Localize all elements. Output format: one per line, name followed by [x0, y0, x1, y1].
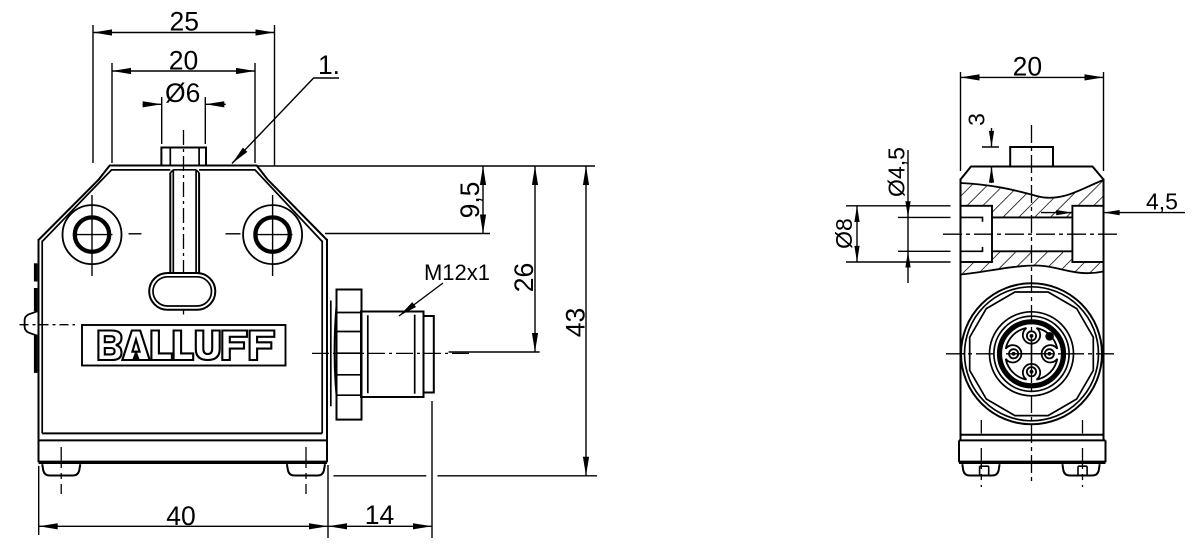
oval slot inner: [153, 277, 212, 306]
counterbore left (Ø8): [961, 206, 993, 262]
hex nut facet lines: [334, 304, 361, 396]
svg-text:Ø4,5: Ø4,5: [884, 147, 910, 197]
letter F: [250, 331, 275, 361]
lower break wavy line: [961, 266, 1104, 275]
dim 14 extension line: [431, 401, 433, 538]
screw left outer circle: [63, 205, 122, 264]
dim 25 line: [93, 32, 275, 34]
Ø8 extension lines: [846, 205, 951, 207]
FRONT VIEW: [20, 130, 471, 494]
body top edge (side): [961, 167, 1104, 180]
svg-text:20: 20: [169, 46, 198, 76]
knurl dodecagon: [970, 292, 1094, 416]
foot centerline right (side): [1082, 420, 1084, 487]
pin 4 (left): [1009, 349, 1018, 358]
dim 3 arrow segments: [991, 128, 993, 147]
foot left (front): [42, 464, 80, 475]
svg-text:25: 25: [170, 7, 199, 37]
foot right notch: [1078, 466, 1087, 474]
oval slot outer: [149, 273, 215, 310]
dim 40 extension lines: [38, 466, 40, 535]
svg-text:20: 20: [1013, 52, 1042, 82]
base plate bottom edge (side): [959, 461, 1106, 464]
M12 connector washer line: [330, 301, 332, 407]
letter L: [151, 331, 172, 361]
dim Ø8 line: [856, 206, 858, 262]
letter F: [222, 331, 247, 361]
dim 26 line: [534, 166, 536, 352]
thread chamfer line: [367, 315, 369, 393]
dim 9,5 line: [482, 166, 484, 234]
26 reference line: [449, 351, 540, 353]
counterbore right (Ø8): [1072, 206, 1103, 262]
screw right bold ring: [255, 217, 289, 251]
letter A: [122, 331, 149, 361]
dim 3 extension line: [982, 146, 999, 148]
hatch lower band (section): [961, 251, 1104, 274]
screw right cross: [272, 195, 274, 276]
body bottom groove line (side): [961, 434, 1104, 436]
M12 outer ring circle: [961, 283, 1102, 424]
letter B: [98, 331, 121, 361]
hole centerline: [943, 233, 1120, 235]
dim 26 arrows: [532, 166, 538, 185]
dim 43 line: [585, 166, 587, 476]
through hole Ø4.5 bottom edge: [992, 250, 1072, 252]
plunger stem: [170, 170, 199, 273]
screw right outer circle: [243, 205, 302, 264]
cover plate inner border: [42, 170, 322, 434]
base plate top line: [39, 439, 328, 441]
svg-text:Ø6: Ø6: [165, 78, 200, 108]
foot right (front): [287, 464, 325, 475]
dim 14 arrows: [328, 523, 347, 529]
top reference line: [257, 165, 595, 167]
dim Ø4,5 line: [907, 150, 909, 283]
M12x1 leader line: [399, 283, 443, 316]
front vertical centerline: [183, 130, 185, 273]
foot centerline left (side): [980, 420, 982, 487]
svg-text:26: 26: [509, 263, 539, 292]
wire left body edge: [38, 239, 40, 462]
dim 20 extension lines: [111, 63, 113, 163]
base plate end edges (side): [958, 440, 960, 462]
connector face ring r42: [990, 312, 1074, 396]
dim 20 line: [112, 70, 255, 72]
dim 4,5 arrow tails: [1041, 212, 1072, 214]
9,5 reference line: [325, 233, 490, 235]
connector face ring r38: [994, 316, 1069, 391]
dim Ø6 arrows: [143, 101, 162, 107]
dim 20 side line: [961, 76, 1104, 78]
dim 9,5 arrows: [480, 166, 486, 185]
connector end cap: [424, 316, 434, 393]
SIDE VIEW: [943, 125, 1120, 487]
foot left notch: [980, 466, 989, 474]
dim 25 arrows: [93, 29, 112, 35]
foot right (side): [1062, 464, 1099, 475]
insert outline (lobed): [1006, 328, 1058, 380]
dim 4,5 arrows: [1056, 210, 1072, 215]
dim 3 arrows: [989, 131, 994, 147]
svg-text:9,5: 9,5: [455, 182, 485, 219]
foot centerline left: [60, 447, 62, 494]
connector bold thread ring: [1000, 322, 1064, 386]
body right edge (side): [1103, 179, 1105, 441]
dim 14 line: [328, 525, 432, 527]
svg-text:43: 43: [561, 308, 591, 337]
plunger cap inner lines: [169, 149, 171, 166]
letter L: [174, 331, 194, 361]
side horizontal centerline: [946, 353, 1118, 355]
svg-text:Ø8: Ø8: [831, 218, 857, 249]
Ø4,5 hole extension lines: [898, 216, 951, 218]
dim 40 line: [39, 525, 328, 527]
plunger (side): [1010, 147, 1053, 167]
dim 20 side extension lines: [960, 72, 962, 171]
pin cross lines: [1031, 336, 1033, 372]
housing body outline (front view): [39, 166, 328, 241]
dim Ø6 extension lines: [161, 97, 163, 144]
svg-text:4,5: 4,5: [1146, 189, 1178, 215]
upper break wavy line: [961, 180, 1104, 198]
dim Ø4,5 arrows: [905, 201, 910, 217]
coding key blob: [1045, 332, 1054, 341]
BALLUFF logo letters: [98, 331, 274, 361]
pin 2 (right): [1045, 349, 1054, 358]
screw left cross: [91, 195, 93, 276]
M12 thread barrel: [361, 312, 424, 398]
screw left bold ring: [75, 217, 109, 251]
dim Ø6 arrow tails: [143, 103, 162, 105]
screws horizontal centerline dashes: [129, 233, 142, 235]
foot left (side): [962, 464, 999, 475]
svg-text:14: 14: [365, 500, 394, 530]
pin 1 (top): [1027, 331, 1036, 340]
M12 second ring circle: [965, 287, 1099, 421]
wire right body edge: [326, 239, 328, 462]
body bottom groove line: [42, 432, 322, 434]
hatch upper band (section): [961, 180, 1104, 217]
M12 hex nut: [337, 290, 362, 420]
dim 43 arrows: [583, 166, 589, 185]
through hole Ø4.5 top edge: [992, 216, 1072, 218]
side plunger bump centerline: [20, 324, 76, 326]
base plate bottom edge: [39, 461, 328, 464]
dim 25 extension lines: [92, 25, 94, 163]
pin 3 (bottom): [1027, 367, 1036, 376]
dim 20 arrows: [112, 68, 131, 74]
thread relief line: [414, 315, 416, 394]
leader 1.: [232, 78, 339, 164]
letter U: [196, 331, 220, 361]
side plunger bump: [25, 311, 38, 335]
base plate top line (side): [959, 439, 1106, 441]
svg-text:40: 40: [166, 501, 195, 531]
leader 1. arrowhead: [230, 148, 248, 166]
43 reference line: [334, 475, 427, 477]
body left edge (side): [960, 179, 962, 441]
counterbore back-wall edges with drill jog: [962, 217, 983, 251]
side seal strip (black): [34, 263, 38, 373]
svg-text:1.: 1.: [318, 50, 340, 80]
side vertical centerline: [1031, 125, 1033, 485]
svg-text:M12x1: M12x1: [424, 260, 490, 285]
svg-text:3: 3: [964, 113, 990, 126]
dim Ø8 arrows: [854, 206, 859, 222]
foot centerline right: [305, 447, 307, 494]
dim 20 side arrows: [961, 74, 980, 80]
dim 40 arrows: [39, 523, 58, 529]
logo box: [82, 325, 286, 366]
plunger cap: [161, 148, 206, 166]
connector centerline (front): [312, 352, 470, 354]
